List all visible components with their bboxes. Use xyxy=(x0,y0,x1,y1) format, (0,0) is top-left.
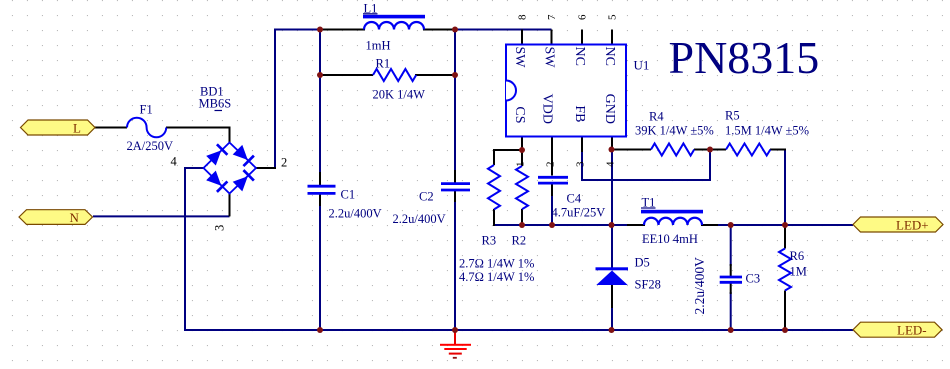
node x455 top xyxy=(452,27,458,33)
wire FB link horizontal xyxy=(581,179,710,181)
svg-text:3: 3 xyxy=(575,161,587,167)
wire R2 bottom stub xyxy=(521,209,523,226)
svg-text:20K 1/4W: 20K 1/4W xyxy=(373,88,426,102)
wire C1 top stub xyxy=(319,172,321,185)
bridge rectifier BD1 diamond xyxy=(204,143,257,194)
IC pin names xyxy=(512,47,617,125)
svg-text:MB6S: MB6S xyxy=(199,97,232,111)
svg-text:SW: SW xyxy=(512,47,527,69)
svg-text:L: L xyxy=(73,121,81,136)
svg-text:SF28: SF28 xyxy=(635,278,661,292)
svg-text:2.2u/400V: 2.2u/400V xyxy=(692,257,707,315)
wire R1 right pin xyxy=(415,74,455,76)
capacitor C1 xyxy=(308,186,336,193)
wire D5 bottom to rail xyxy=(611,284,613,330)
svg-text:SW: SW xyxy=(541,47,556,69)
resistor R4 xyxy=(651,144,694,156)
wire C1 bottom stub xyxy=(319,194,321,207)
svg-text:4.7Ω 1/4W 1%: 4.7Ω 1/4W 1% xyxy=(459,270,534,284)
svg-text:4.7uF/25V: 4.7uF/25V xyxy=(552,206,606,220)
svg-text:CS: CS xyxy=(512,106,527,123)
wire C2 top stub xyxy=(454,170,456,183)
wire R5 right pin xyxy=(770,149,786,151)
node R6 bottom xyxy=(782,327,788,333)
terminal LED+ xyxy=(853,217,943,233)
wire CS node jog to R3 xyxy=(494,150,523,165)
bridge diode bottom-left xyxy=(206,170,228,192)
svg-text:1M: 1M xyxy=(790,265,807,279)
node C1 ground xyxy=(317,327,323,333)
bridge diode top-left xyxy=(206,144,228,166)
ground symbol xyxy=(440,330,471,359)
wire R4 right pin / R5 left pin xyxy=(694,149,726,151)
pin 1 CS stub xyxy=(521,137,523,152)
svg-text:R4: R4 xyxy=(649,110,664,124)
svg-text:39K 1/4W ±5%: 39K 1/4W ±5% xyxy=(635,124,714,138)
wire C3 bottom stub xyxy=(730,292,732,330)
svg-text:2.2u/400V: 2.2u/400V xyxy=(393,212,446,226)
svg-text:R2: R2 xyxy=(512,234,527,248)
svg-text:D5: D5 xyxy=(635,256,650,270)
svg-text:1: 1 xyxy=(515,162,527,168)
svg-text:U1: U1 xyxy=(634,58,650,73)
wire DC minus vertical x185 xyxy=(184,167,186,330)
svg-text:8: 8 xyxy=(517,14,529,20)
wire output rail left of T1 xyxy=(494,224,645,226)
label T1 underline xyxy=(641,207,656,209)
wire R3 bottom stub xyxy=(493,209,495,226)
inductor L1 xyxy=(363,15,425,30)
bridge diode bottom-right xyxy=(232,170,254,192)
svg-text:R5: R5 xyxy=(725,109,740,123)
svg-text:2: 2 xyxy=(545,162,557,168)
wire bridge right stub to x275 xyxy=(256,167,277,169)
node C3 bottom xyxy=(728,327,734,333)
wire bridge bottom stub xyxy=(229,193,231,216)
IC notch xyxy=(506,81,516,101)
pin 7 stub xyxy=(551,30,553,46)
wire VDD pin to C4 xyxy=(551,195,553,226)
wire C2 bottom to ground rail xyxy=(454,200,456,330)
svg-text:2A/250V: 2A/250V xyxy=(127,139,174,153)
svg-text:PN8315: PN8315 xyxy=(669,32,820,83)
MB6S underline mark xyxy=(215,110,223,112)
svg-text:LED+: LED+ xyxy=(896,218,929,233)
node C2 ground xyxy=(452,327,458,333)
node x320 top xyxy=(317,27,323,33)
wire C2 bottom stub xyxy=(454,190,456,202)
wire C1 bottom to ground rail xyxy=(319,204,321,331)
node R4-R5 FB xyxy=(707,147,713,153)
wire FB link up to R4 R5 node xyxy=(709,150,711,182)
pin 8 stub xyxy=(521,30,523,46)
resistor R3 xyxy=(488,165,500,209)
svg-text:N: N xyxy=(70,210,80,225)
svg-text:2.7Ω 1/4W 1%: 2.7Ω 1/4W 1% xyxy=(459,257,534,271)
IC pin numbers xyxy=(515,14,619,167)
svg-text:R3: R3 xyxy=(482,234,497,248)
pin 4 GND stub xyxy=(611,137,613,153)
node x320 R1 xyxy=(317,72,323,78)
wire L1 left pin xyxy=(320,29,365,31)
svg-text:1mH: 1mH xyxy=(366,39,391,53)
node D5 ground xyxy=(609,327,615,333)
svg-text:NC: NC xyxy=(572,47,587,66)
svg-text:R6: R6 xyxy=(790,249,805,263)
wire fuse F1 to bridge top xyxy=(166,128,230,144)
svg-text:GND: GND xyxy=(602,94,617,124)
svg-text:6: 6 xyxy=(577,14,589,20)
wire R4 left pin from GND node xyxy=(611,149,651,151)
wire FB pin down xyxy=(581,151,583,180)
wire from N terminal xyxy=(93,215,230,217)
svg-text:EE10 4mH: EE10 4mH xyxy=(642,232,698,246)
wire D5 top stub xyxy=(611,225,613,268)
svg-text:C2: C2 xyxy=(419,190,434,204)
wire bottom ground rail xyxy=(184,329,853,331)
svg-text:5: 5 xyxy=(607,14,619,20)
terminal L xyxy=(21,120,96,136)
wire x320 vertical through C1 xyxy=(319,30,321,175)
terminal LED- xyxy=(853,322,942,337)
svg-text:7: 7 xyxy=(546,14,558,20)
label L1 underline xyxy=(363,13,378,15)
svg-text:1.5M 1/4W ±5%: 1.5M 1/4W ±5% xyxy=(725,124,809,138)
wire L terminal to fuse F1 xyxy=(93,127,127,129)
resistor R2 xyxy=(516,166,528,209)
wire top rail left xyxy=(275,29,321,31)
resistor R5 xyxy=(726,144,770,156)
node R2 bottom xyxy=(519,222,525,228)
wire D5 anode stub xyxy=(611,284,613,308)
svg-text:R1: R1 xyxy=(376,57,391,71)
black component pin segments xyxy=(93,30,786,332)
svg-text:C1: C1 xyxy=(341,188,356,202)
wire T1 left pin xyxy=(627,224,645,226)
node GND-R4 xyxy=(609,147,615,153)
pin 6 stub xyxy=(581,30,583,46)
wire R2 top stub xyxy=(521,150,523,166)
svg-text:VDD: VDD xyxy=(539,94,554,124)
node R6 top xyxy=(782,222,788,228)
wire x455 vertical through C2 xyxy=(454,30,456,173)
op IC U1 PN8315 body xyxy=(506,45,626,137)
bridge diode top-right xyxy=(232,144,254,166)
node x455 R1 xyxy=(452,72,458,78)
svg-text:C3: C3 xyxy=(746,272,761,286)
wire C4 bottom stub xyxy=(551,185,553,197)
wire C3 plate stubs xyxy=(730,264,732,294)
wire top rail to IC pins 8,7 xyxy=(455,29,552,31)
diode D5 xyxy=(596,267,629,285)
node CS xyxy=(519,147,525,153)
terminal N xyxy=(19,210,93,225)
capacitor C4 xyxy=(538,177,568,183)
wire L1 right pin xyxy=(423,29,456,31)
wire T1 right pin xyxy=(701,224,718,226)
svg-text:2: 2 xyxy=(281,155,287,169)
svg-text:4: 4 xyxy=(605,161,617,167)
node C4 bottom xyxy=(549,222,555,228)
wire C3 top stub xyxy=(730,225,732,266)
fuse F1 xyxy=(127,118,166,138)
wire output rail right of T1 to LED+ xyxy=(701,224,853,226)
wire R6 bottom stub xyxy=(784,291,786,332)
svg-text:LED-: LED- xyxy=(897,322,927,337)
pin 3 FB stub xyxy=(581,137,583,153)
wire net: top rail from node at x275 to IC pins xyxy=(93,29,853,332)
svg-text:F1: F1 xyxy=(140,103,153,117)
capacitor C2 xyxy=(441,184,470,190)
wire bridge left stub xyxy=(185,167,205,169)
wire GND pin down to SW rail xyxy=(611,151,613,226)
svg-text:FB: FB xyxy=(572,105,587,122)
wire vertical x275 to bridge xyxy=(274,29,276,169)
svg-text:3: 3 xyxy=(213,225,227,231)
node SW rail D5 xyxy=(609,222,615,228)
wire R1 left pin xyxy=(320,74,373,76)
resistor R6 xyxy=(779,249,791,291)
pin 5 stub xyxy=(611,30,613,46)
wire R6 top stub xyxy=(784,224,786,249)
svg-text:NC: NC xyxy=(602,47,617,66)
svg-text:2.2u/400V: 2.2u/400V xyxy=(329,207,382,221)
capacitor C3 xyxy=(720,277,742,282)
pin 2 VDD stub to C4 xyxy=(551,137,553,176)
svg-text:C4: C4 xyxy=(567,192,582,206)
transformer T1 xyxy=(641,210,703,225)
svg-text:4: 4 xyxy=(171,155,178,169)
node C3 top xyxy=(728,222,734,228)
resistor R1 xyxy=(373,69,416,81)
wire R5 right down to LED+ rail xyxy=(784,150,786,227)
